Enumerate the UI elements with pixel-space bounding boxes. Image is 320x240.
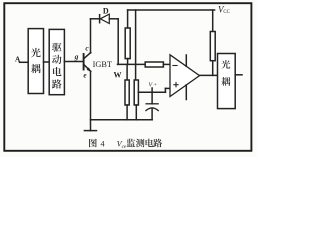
svg-text:ce: ce	[122, 145, 127, 150]
svg-text:W: W	[114, 70, 122, 79]
svg-text:g: g	[74, 52, 79, 61]
svg-text:4: 4	[101, 139, 105, 148]
svg-text:IGBT: IGBT	[93, 60, 112, 69]
svg-text:CC: CC	[223, 10, 229, 15]
svg-text:D: D	[103, 7, 109, 16]
svg-text:+: +	[154, 82, 157, 88]
